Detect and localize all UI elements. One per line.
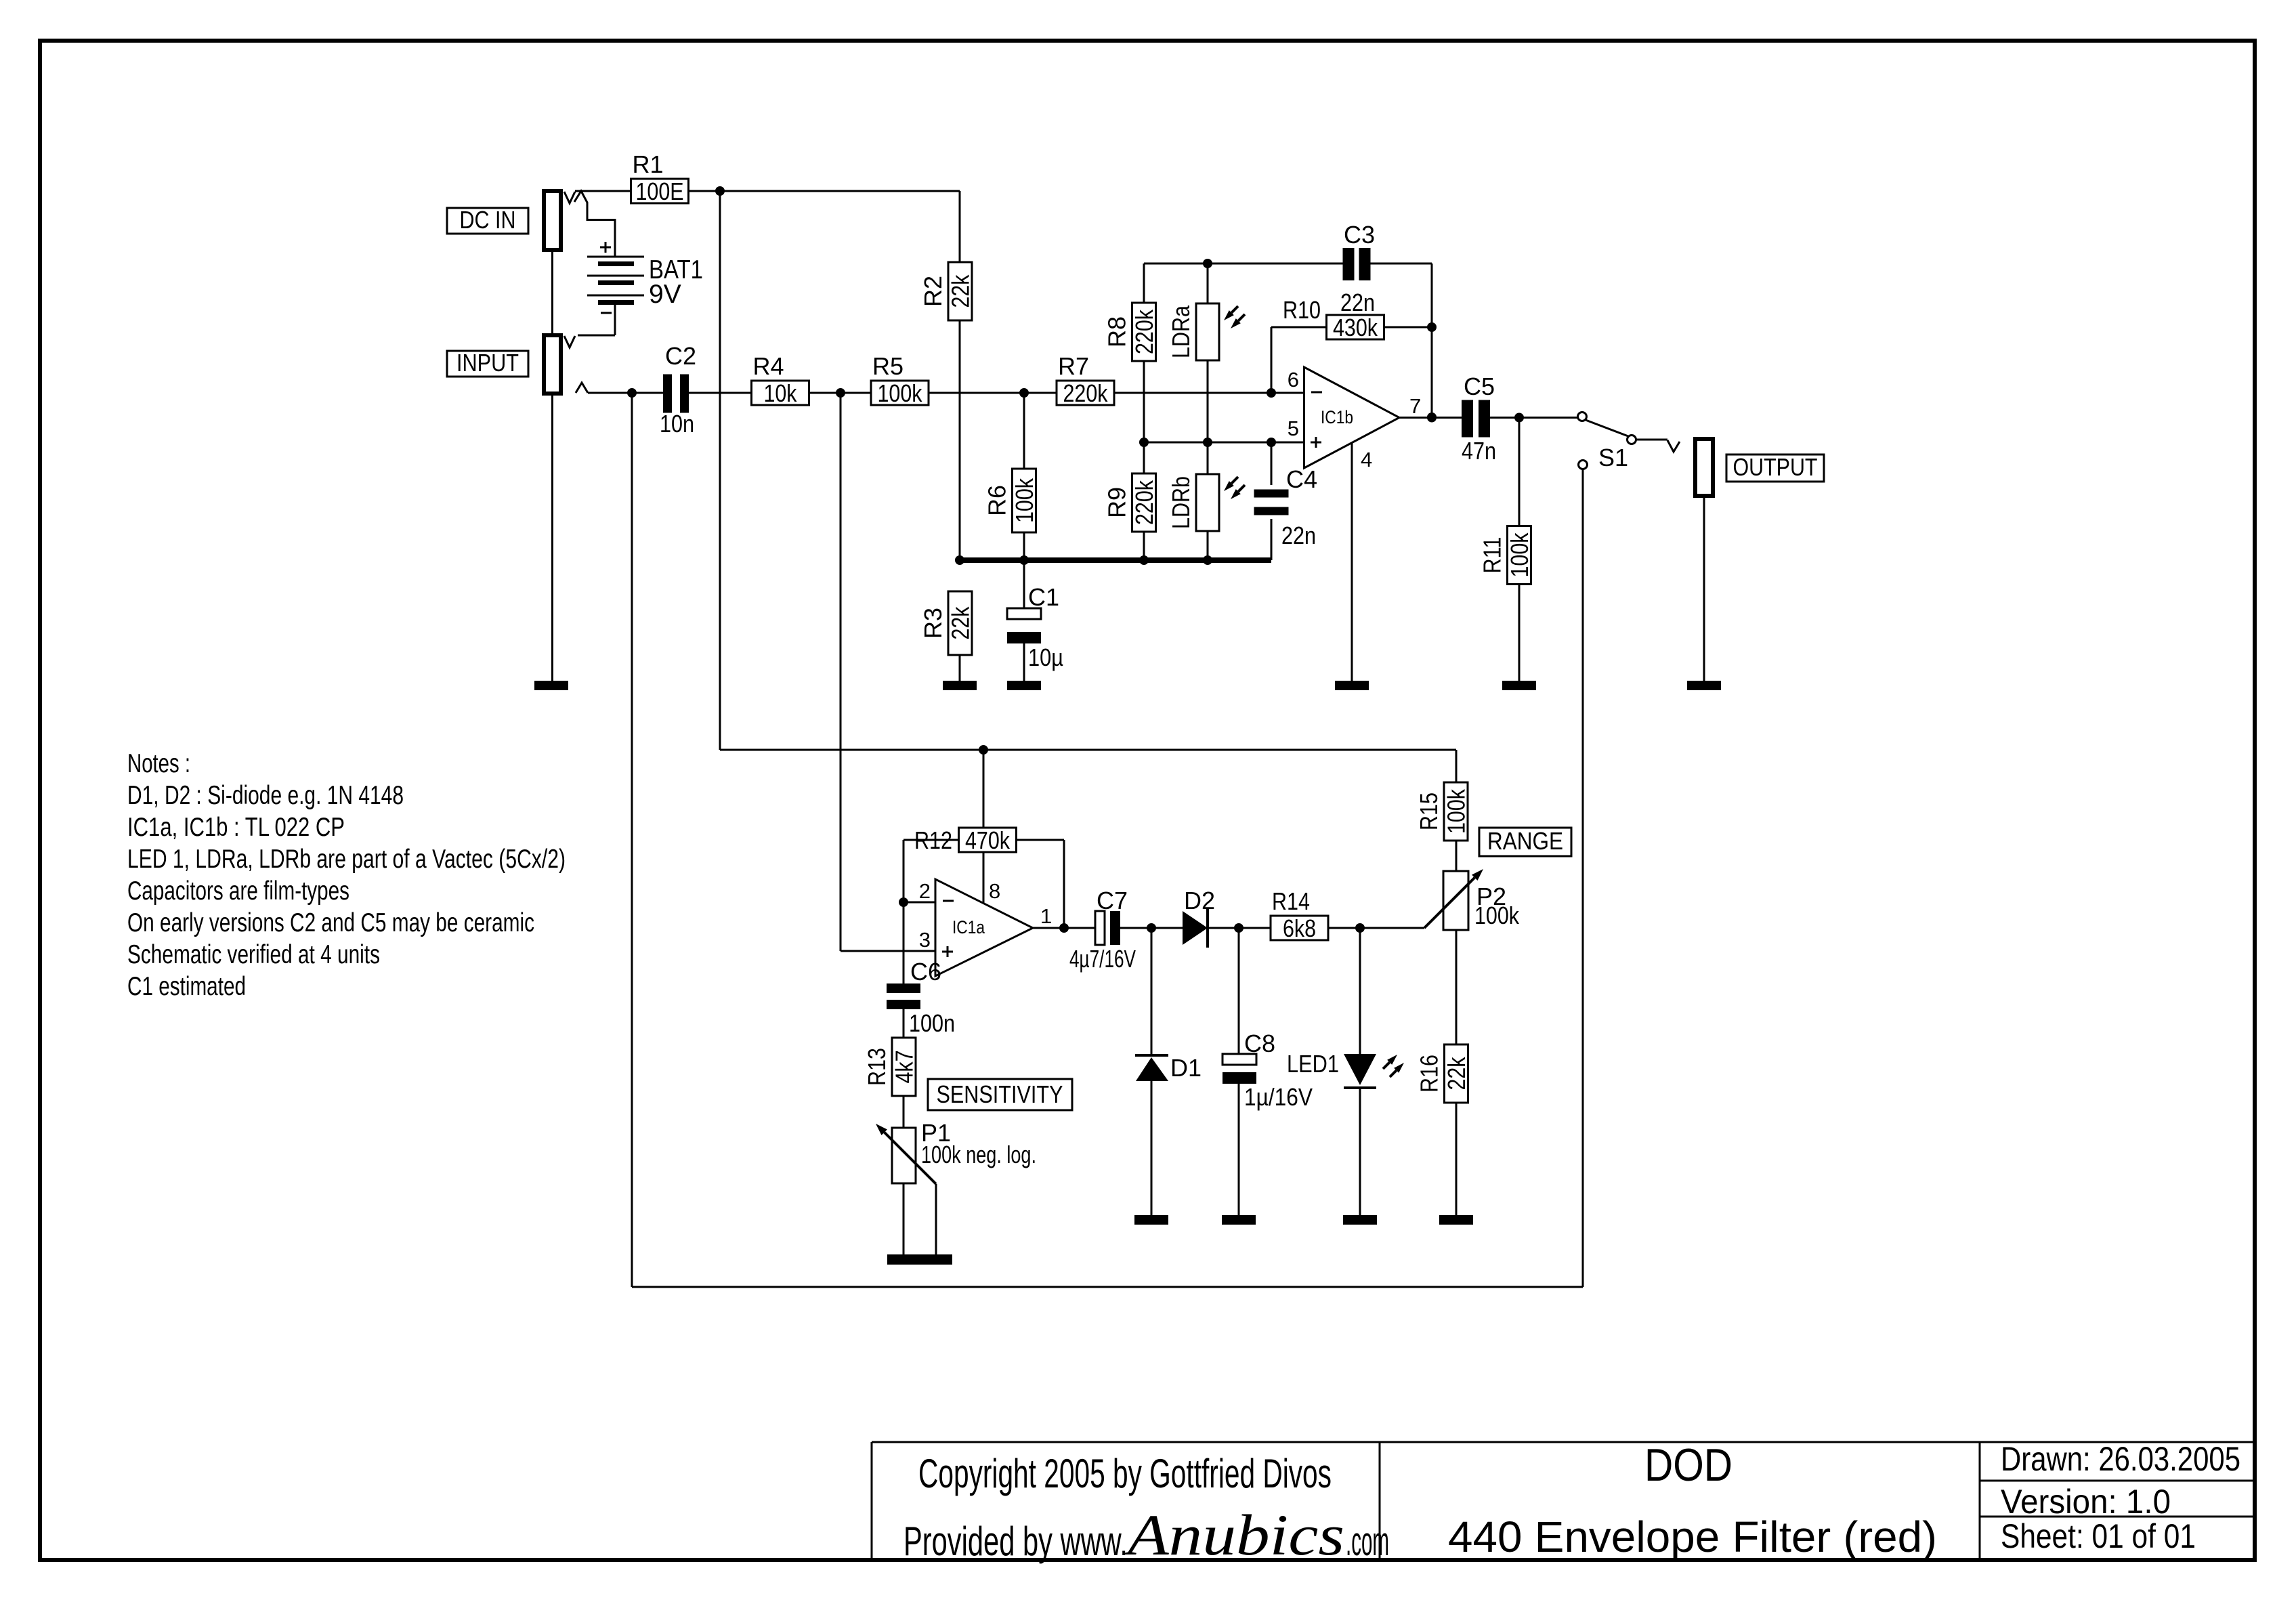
svg-text:IC1a, IC1b : TL 022 CP: IC1a, IC1b : TL 022 CP [127, 813, 345, 842]
svg-text:100k: 100k [878, 379, 923, 407]
svg-text:3: 3 [919, 928, 931, 952]
svg-text:RANGE: RANGE [1487, 827, 1563, 855]
svg-text:Notes :: Notes : [127, 749, 190, 778]
svg-text:47n: 47n [1462, 437, 1496, 465]
svg-text:22k: 22k [1443, 1057, 1470, 1091]
svg-text:C4: C4 [1286, 465, 1317, 493]
svg-text:Anubics: Anubics [1124, 1502, 1344, 1567]
svg-text:10k: 10k [764, 379, 798, 407]
svg-text:22k: 22k [947, 606, 975, 640]
svg-text:R8: R8 [1103, 316, 1131, 347]
svg-text:R15: R15 [1415, 792, 1443, 830]
svg-text:Provided by www.: Provided by www. [903, 1519, 1128, 1564]
svg-text:D2: D2 [1184, 887, 1215, 914]
svg-text:22n: 22n [1281, 522, 1316, 549]
svg-text:D1, D2 : Si-diode e.g. 1N 4148: D1, D2 : Si-diode e.g. 1N 4148 [127, 781, 404, 810]
svg-text:OUTPUT: OUTPUT [1733, 453, 1818, 481]
svg-text:R11: R11 [1479, 537, 1506, 574]
svg-text:On early versions C2 and C5 ma: On early versions C2 and C5 may be ceram… [127, 908, 534, 937]
svg-text:R3: R3 [919, 608, 947, 639]
svg-text:C2: C2 [665, 342, 696, 370]
svg-text:C1: C1 [1028, 583, 1059, 611]
svg-text:Copyright 2005 by Gottfried Di: Copyright 2005 by Gottfried Divos [918, 1451, 1332, 1496]
svg-text:DOD: DOD [1644, 1439, 1732, 1491]
svg-text:Capacitors are film-types: Capacitors are film-types [127, 876, 349, 906]
svg-text:220k: 220k [1130, 309, 1158, 354]
svg-text:440 Envelope Filter (red): 440 Envelope Filter (red) [1448, 1512, 1937, 1561]
svg-text:C1 estimated: C1 estimated [127, 972, 246, 1001]
svg-text:6: 6 [1288, 368, 1299, 392]
svg-text:1: 1 [1040, 904, 1052, 928]
svg-text:LED 1, LDRa, LDRb are part of: LED 1, LDRa, LDRb are part of a Vactec (… [127, 845, 566, 874]
svg-text:22k: 22k [947, 274, 975, 308]
svg-text:430k: 430k [1333, 314, 1378, 341]
svg-text:S1: S1 [1598, 444, 1628, 471]
svg-text:R2: R2 [919, 276, 947, 307]
svg-text:100k: 100k [1506, 532, 1533, 578]
svg-text:SENSITIVITY: SENSITIVITY [937, 1080, 1063, 1108]
svg-text:C3: C3 [1344, 221, 1375, 249]
svg-text:10µ: 10µ [1028, 643, 1063, 671]
svg-text:4: 4 [1361, 448, 1372, 471]
svg-text:4k7: 4k7 [891, 1051, 918, 1084]
svg-text:220k: 220k [1063, 379, 1109, 407]
svg-text:R6: R6 [983, 485, 1011, 516]
svg-text:100E: 100E [636, 177, 684, 205]
svg-text:R10: R10 [1283, 296, 1321, 324]
svg-text:R13: R13 [863, 1048, 891, 1086]
svg-text:IC1b: IC1b [1321, 407, 1353, 427]
svg-text:Schematic verified at 4 units: Schematic verified at 4 units [127, 940, 380, 969]
svg-text:100k: 100k [1011, 478, 1038, 523]
svg-text:8: 8 [989, 879, 1000, 903]
svg-text:R1: R1 [633, 150, 664, 178]
svg-text:R14: R14 [1272, 887, 1310, 915]
svg-text:22n: 22n [1340, 289, 1375, 316]
svg-text:Version: 1.0: Version: 1.0 [2001, 1483, 2171, 1521]
svg-text:1µ/16V: 1µ/16V [1244, 1083, 1313, 1111]
svg-text:LDRb: LDRb [1167, 476, 1195, 529]
svg-text:LED1: LED1 [1287, 1050, 1339, 1078]
svg-text:INPUT: INPUT [456, 349, 519, 377]
svg-text:10n: 10n [660, 410, 694, 438]
svg-text:D1: D1 [1170, 1054, 1202, 1082]
svg-text:470k: 470k [965, 826, 1011, 854]
svg-text:IC1a: IC1a [952, 917, 985, 937]
svg-text:R5: R5 [872, 352, 903, 380]
svg-text:220k: 220k [1130, 480, 1158, 525]
svg-text:LDRa: LDRa [1167, 305, 1195, 358]
svg-text:C8: C8 [1244, 1030, 1275, 1057]
svg-text:100k: 100k [1474, 902, 1520, 929]
svg-text:R9: R9 [1103, 487, 1131, 518]
svg-text:100n: 100n [909, 1009, 955, 1037]
svg-text:R16: R16 [1416, 1055, 1443, 1093]
svg-text:Drawn: 26.03.2005: Drawn: 26.03.2005 [2001, 1440, 2240, 1478]
svg-text:100k: 100k [1443, 788, 1470, 834]
svg-text:4µ7/16V: 4µ7/16V [1069, 945, 1136, 973]
svg-text:7: 7 [1409, 394, 1421, 418]
svg-text:5: 5 [1288, 417, 1299, 440]
svg-text:DC IN: DC IN [460, 206, 516, 234]
svg-text:C7: C7 [1097, 887, 1128, 914]
svg-text:.com: .com [1346, 1519, 1389, 1564]
svg-text:C5: C5 [1464, 373, 1495, 400]
svg-text:C6: C6 [910, 958, 941, 986]
svg-text:100k neg. log.: 100k neg. log. [921, 1141, 1036, 1168]
svg-text:Sheet: 01 of 01: Sheet: 01 of 01 [2001, 1517, 2196, 1555]
svg-text:6k8: 6k8 [1283, 914, 1316, 942]
svg-text:2: 2 [919, 879, 931, 903]
svg-text:R7: R7 [1058, 352, 1089, 380]
svg-text:9V: 9V [649, 280, 681, 309]
svg-text:R4: R4 [753, 352, 784, 380]
